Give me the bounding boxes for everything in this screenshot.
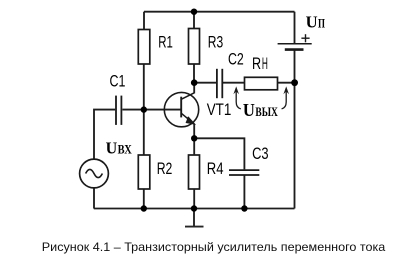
- node base junction: [141, 106, 147, 112]
- svg-text:C2: C2: [228, 51, 244, 69]
- Uvyh left measuring arrow: [236, 89, 241, 109]
- wire Rn right to right-rail junction: [278, 82, 295, 84]
- wire R3 drop from top dot: [193, 12, 195, 29]
- wire bottom ground rail: [94, 208, 295, 210]
- svg-text:R3: R3: [208, 34, 223, 52]
- wire R4 bottom to rail: [193, 189, 195, 209]
- node top rail junction: [191, 9, 197, 15]
- wire R2 bottom to ground rail: [143, 189, 145, 209]
- svg-text:R: R: [252, 55, 261, 73]
- battery plus sign: [301, 34, 309, 42]
- wire top-right corner down to battery + plate: [294, 12, 296, 44]
- svg-text:П: П: [318, 17, 325, 31]
- wire ground stem: [193, 209, 195, 227]
- node collector junction: [191, 79, 198, 86]
- wire C3 bottom plate to rail: [243, 175, 245, 208]
- node emitter junction: [191, 135, 197, 141]
- transistor VT1 collector diagonal: [181, 93, 194, 100]
- ground bar: [185, 226, 204, 228]
- wire collector junction to C2 left plate: [194, 82, 216, 84]
- wire C2 right plate to Rn: [223, 82, 245, 84]
- wire emitter to lower junction: [193, 124, 195, 138]
- wire emitter junction to C3 branch corner: [194, 138, 244, 169]
- wire collector to top junction: [193, 83, 195, 93]
- capacitor C3 plates: [229, 170, 259, 175]
- capacitor C2 plates: [217, 69, 222, 98]
- svg-text:C3: C3: [252, 145, 269, 163]
- svg-text:ВЫХ: ВЫХ: [255, 105, 278, 119]
- svg-text:ВХ: ВХ: [118, 141, 133, 156]
- node rail R2: [141, 205, 147, 211]
- svg-text:VT1: VT1: [207, 101, 232, 119]
- AC source circle: [80, 159, 109, 188]
- wire top rail: [144, 11, 295, 13]
- svg-text:Рисунок 4.1 – Транзисторный ус: Рисунок 4.1 – Транзисторный усилитель пе…: [42, 240, 386, 254]
- svg-text:U: U: [106, 138, 118, 157]
- svg-text:C1: C1: [110, 72, 126, 90]
- capacitor C1 plates: [116, 96, 121, 125]
- svg-text:U: U: [306, 13, 318, 32]
- Uvyh right measuring arrow: [282, 89, 287, 109]
- wire R3 bottom to collector junction: [193, 64, 195, 83]
- wire R4 top from emitter junction: [193, 138, 195, 155]
- battery Up plates: [278, 43, 312, 45]
- svg-text:R2: R2: [157, 160, 173, 178]
- wire C1 right plate to transistor base: [122, 109, 181, 111]
- node rail ground: [191, 205, 197, 211]
- svg-text:U: U: [243, 100, 255, 120]
- resistor R3 body: [189, 29, 200, 65]
- transistor VT1 base bar: [180, 97, 182, 118]
- node rail C3: [241, 205, 247, 211]
- node right-rail output junction: [291, 79, 298, 86]
- wire R1 bottom to base junction to R2 top: [143, 64, 145, 155]
- wire R1 drop from top rail: [143, 12, 145, 30]
- transistor VT1 emitter arrowhead: [186, 117, 195, 124]
- resistor R2 body: [138, 155, 150, 189]
- svg-text:R1: R1: [158, 34, 173, 52]
- svg-text:R4: R4: [207, 160, 224, 178]
- AC source sine wave: [86, 169, 103, 177]
- wire battery bottom down right side to ground rail: [294, 50, 296, 208]
- transistor VT1 emitter diagonal: [181, 113, 194, 124]
- resistor R4 body: [189, 155, 200, 189]
- resistor R1 body: [138, 30, 150, 65]
- wire input source branch: corner and drop: [94, 110, 115, 160]
- svg-text:Н: Н: [262, 55, 268, 73]
- resistor Rn body (horizontal load): [245, 77, 278, 90]
- wire source bottom to rail: [93, 188, 95, 209]
- transistor VT1 circle: [164, 92, 198, 126]
